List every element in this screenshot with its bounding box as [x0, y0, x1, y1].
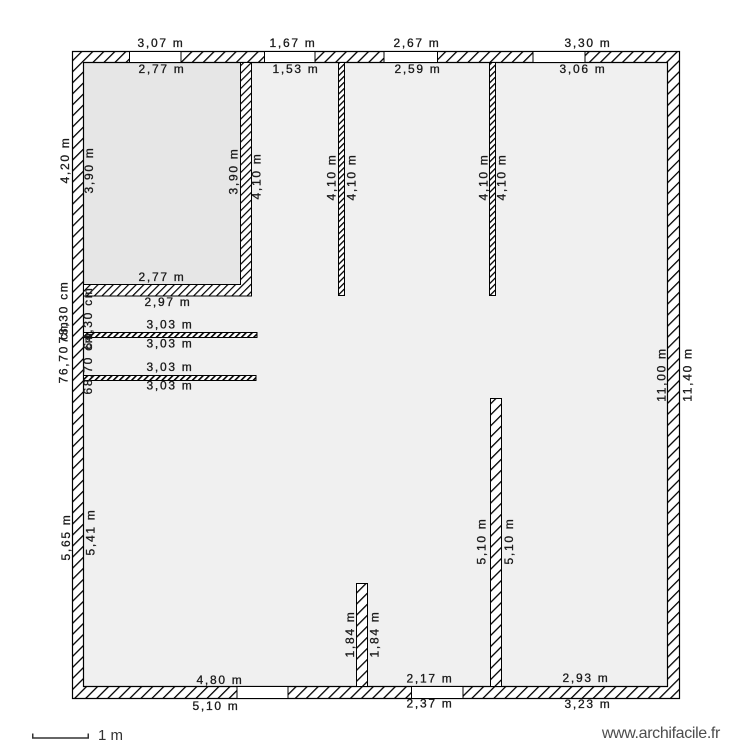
- svg-text:2,37 m: 2,37 m: [407, 697, 454, 711]
- svg-text:2,59 m: 2,59 m: [395, 62, 442, 76]
- svg-text:4,10 m: 4,10 m: [250, 153, 264, 200]
- svg-text:www.archifacile.fr: www.archifacile.fr: [601, 725, 721, 742]
- svg-text:4,80 m: 4,80 m: [197, 673, 244, 687]
- svg-text:11,40 m: 11,40 m: [681, 347, 695, 401]
- svg-text:4,20 m: 4,20 m: [58, 137, 72, 184]
- svg-text:1,84 m: 1,84 m: [368, 611, 382, 658]
- svg-text:5,10 m: 5,10 m: [502, 518, 516, 565]
- svg-text:4,10 m: 4,10 m: [495, 154, 509, 201]
- svg-text:2,77 m: 2,77 m: [139, 270, 186, 284]
- svg-text:5,65 m: 5,65 m: [59, 514, 73, 561]
- svg-text:3,23 m: 3,23 m: [565, 697, 612, 711]
- svg-text:76,70 cm: 76,70 cm: [57, 321, 71, 384]
- svg-text:4,10 m: 4,10 m: [477, 154, 491, 201]
- svg-text:5,10 m: 5,10 m: [193, 699, 240, 713]
- svg-text:11,00 m: 11,00 m: [655, 347, 669, 401]
- svg-text:3,90 m: 3,90 m: [82, 147, 96, 194]
- svg-text:1 m: 1 m: [98, 727, 123, 744]
- svg-text:4,10 m: 4,10 m: [325, 154, 339, 201]
- svg-text:68,70 cm: 68,70 cm: [81, 332, 95, 395]
- svg-text:2,67 m: 2,67 m: [394, 36, 441, 50]
- svg-text:3,30 m: 3,30 m: [565, 36, 612, 50]
- svg-text:5,10 m: 5,10 m: [475, 518, 489, 565]
- svg-text:2,97 m: 2,97 m: [145, 295, 192, 309]
- svg-text:2,93 m: 2,93 m: [563, 671, 610, 685]
- svg-text:3,03 m: 3,03 m: [147, 337, 194, 351]
- svg-text:2,77 m: 2,77 m: [139, 62, 186, 76]
- svg-text:2,17 m: 2,17 m: [407, 672, 454, 686]
- svg-text:3,06 m: 3,06 m: [560, 62, 607, 76]
- svg-text:1,84 m: 1,84 m: [343, 611, 357, 658]
- svg-text:1,53 m: 1,53 m: [273, 62, 320, 76]
- svg-text:1,67 m: 1,67 m: [270, 36, 317, 50]
- svg-text:3,03 m: 3,03 m: [147, 318, 194, 332]
- svg-text:3,90 m: 3,90 m: [227, 148, 241, 195]
- svg-text:4,10 m: 4,10 m: [345, 154, 359, 201]
- svg-text:3,03 m: 3,03 m: [147, 379, 194, 393]
- svg-text:3,07 m: 3,07 m: [138, 36, 185, 50]
- svg-text:5,41 m: 5,41 m: [84, 509, 98, 556]
- svg-text:3,03 m: 3,03 m: [147, 360, 194, 374]
